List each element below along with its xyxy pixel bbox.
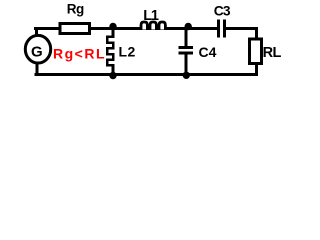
- svg-text:L2: L2: [119, 44, 136, 60]
- svg-text:Rg<RL: Rg<RL: [53, 46, 106, 62]
- svg-text:C4: C4: [199, 44, 217, 60]
- svg-text:L1: L1: [143, 8, 159, 24]
- svg-text:G: G: [31, 44, 43, 61]
- svg-text:C3: C3: [214, 4, 231, 19]
- svg-text:RL: RL: [263, 45, 282, 61]
- svg-text:Rg: Rg: [67, 1, 84, 16]
